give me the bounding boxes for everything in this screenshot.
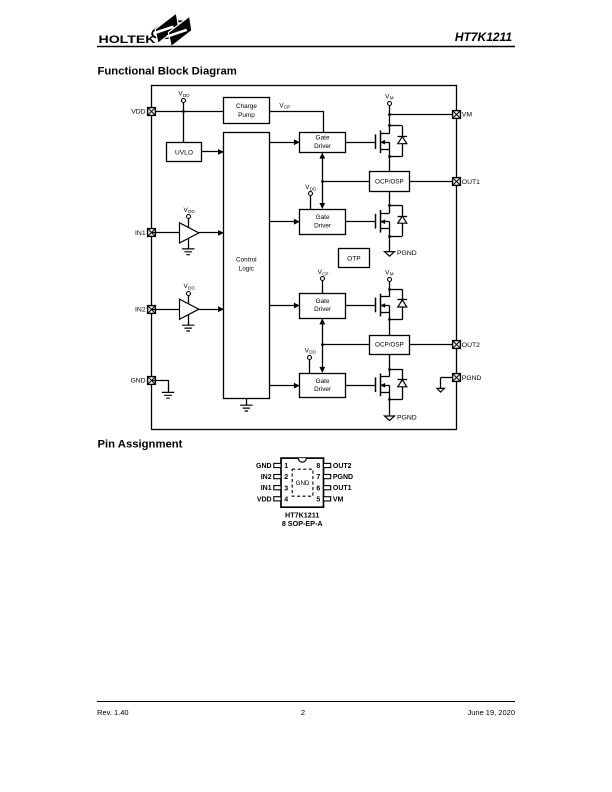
node VM junction xyxy=(388,113,391,116)
node OCP1 junction xyxy=(321,180,324,183)
wire VDD junction to UVLO xyxy=(183,102,185,142)
svg-text:IN2: IN2 xyxy=(261,474,272,481)
buffer amplifier IN2 xyxy=(180,299,199,319)
svg-text:IN2: IN2 xyxy=(135,307,146,314)
node OCP2 junction xyxy=(321,343,324,346)
ground (GND pin) xyxy=(162,392,174,398)
header rule xyxy=(97,46,515,48)
wire Q2 source to PGND xyxy=(389,236,391,252)
wire IN1 to buffer xyxy=(151,232,179,234)
svg-text:Control: Control xyxy=(236,256,257,263)
wire buffer IN1 to control logic xyxy=(199,230,224,236)
svg-text:HT7K1211: HT7K1211 xyxy=(455,30,512,44)
ground PGND (bridge 1) xyxy=(385,250,417,257)
svg-text:Driver: Driver xyxy=(314,386,332,393)
svg-text:6: 6 xyxy=(316,485,320,492)
svg-text:Pin Assignment: Pin Assignment xyxy=(98,439,183,451)
wire Q3 source to OCP/OSP 2 xyxy=(389,320,391,336)
svg-text:Logic: Logic xyxy=(239,266,255,273)
terminal OUT1 xyxy=(453,178,481,186)
terminal GND xyxy=(130,377,155,385)
svg-text:DD: DD xyxy=(310,186,317,191)
svg-text:Driver: Driver xyxy=(314,306,332,313)
footer rule xyxy=(97,701,515,703)
supply pin VCP (gate driver U6) xyxy=(318,269,329,293)
svg-text:VDD: VDD xyxy=(257,496,272,503)
wire control logic to gate driver U7 xyxy=(269,383,300,389)
wire OCP/OSP 2 to terminal OUT2 xyxy=(410,344,456,346)
wire UVLO to control logic xyxy=(202,149,224,155)
svg-text:IN1: IN1 xyxy=(261,485,272,492)
wire control logic to gate driver U5 xyxy=(269,219,300,225)
svg-text:Charge: Charge xyxy=(236,103,257,110)
svg-text:VM: VM xyxy=(462,111,473,118)
svg-text:5: 5 xyxy=(316,496,320,503)
supply pin VM (half-bridge 1) xyxy=(385,93,394,126)
terminal IN1 xyxy=(135,229,155,238)
wire PGND terminal to ground xyxy=(441,378,452,389)
buffer amplifier IN1 xyxy=(180,223,199,243)
terminal OUT2 xyxy=(453,341,481,349)
HOLTEK logo icon xyxy=(151,13,193,47)
terminal PGND xyxy=(453,374,482,382)
svg-text:GND: GND xyxy=(296,480,310,487)
pin 3 IN1 xyxy=(261,485,289,492)
gate driver U6 xyxy=(300,294,346,319)
svg-text:DD: DD xyxy=(188,209,195,214)
svg-text:June 19, 2020: June 19, 2020 xyxy=(467,708,515,717)
ground (IN1 buffer) xyxy=(182,238,195,254)
OCP/OSP block 1 xyxy=(370,172,410,192)
svg-text:Gate: Gate xyxy=(316,214,330,221)
svg-text:7: 7 xyxy=(316,474,320,481)
supply pin VDD (gate driver U7) xyxy=(305,347,317,373)
wire gate driver U6 to Q3 gate xyxy=(346,305,376,307)
transistor Q4 xyxy=(376,368,408,401)
wire gate driver U5 to Q2 gate xyxy=(346,221,376,223)
svg-text:M: M xyxy=(390,272,394,277)
svg-text:VDD: VDD xyxy=(131,108,145,115)
svg-text:GND: GND xyxy=(130,377,145,384)
svg-text:3: 3 xyxy=(284,485,288,492)
wire VM junction to terminal VM xyxy=(390,114,457,116)
svg-text:VM: VM xyxy=(333,496,344,503)
svg-text:Gate: Gate xyxy=(316,298,330,305)
svg-text:OUT1: OUT1 xyxy=(333,485,352,492)
supply pin VDD (IN1 buffer) xyxy=(183,207,195,228)
svg-text:GND: GND xyxy=(256,463,272,470)
svg-text:IN1: IN1 xyxy=(135,230,146,237)
label VDD supply xyxy=(178,91,190,98)
svg-text:8 SOP-EP-A: 8 SOP-EP-A xyxy=(282,519,323,528)
transistor Q3 xyxy=(376,288,408,321)
gate driver U5 xyxy=(300,210,346,235)
package label 8 SOP-EP-A xyxy=(282,519,323,528)
ground (PGND terminal) xyxy=(437,388,444,392)
gate driver U7 xyxy=(300,374,346,398)
pin 5 VM xyxy=(316,496,343,503)
ground (IN2 buffer) xyxy=(182,315,195,331)
wire bidirectional gate driver U6/U7 xyxy=(319,318,325,373)
svg-text:HOLTEK: HOLTEK xyxy=(99,34,157,46)
wire GND to ground xyxy=(151,380,168,392)
pin 1 GND xyxy=(256,463,288,470)
wire OCP/OSP 1 to terminal OUT1 xyxy=(410,181,456,183)
svg-text:DD: DD xyxy=(188,285,195,290)
svg-text:PGND: PGND xyxy=(397,250,417,257)
svg-text:2: 2 xyxy=(284,474,288,481)
wire gate driver U7 to Q4 gate xyxy=(346,385,376,387)
svg-text:CP: CP xyxy=(284,105,290,110)
svg-text:Pump: Pump xyxy=(238,112,255,119)
svg-text:PGND: PGND xyxy=(397,414,417,421)
terminal IN2 xyxy=(135,306,155,314)
svg-text:Gate: Gate xyxy=(316,378,330,385)
svg-text:2: 2 xyxy=(301,708,305,717)
svg-text:OCP/OSP: OCP/OSP xyxy=(375,342,404,349)
pin 6 OUT1 xyxy=(316,485,351,492)
heading: Pin Assignment xyxy=(98,439,183,451)
ground (control logic) xyxy=(240,398,253,411)
control logic U3 xyxy=(224,133,270,399)
svg-text:OUT2: OUT2 xyxy=(462,342,480,349)
charge pump U1 xyxy=(224,98,270,124)
svg-text:Rev. 1.40: Rev. 1.40 xyxy=(97,708,129,717)
wire bidirectional gate driver U4/U5 xyxy=(319,153,325,209)
diagram frame / supply rails xyxy=(152,86,457,430)
wire control logic to gate driver U4 xyxy=(269,139,300,145)
wire junction to OCP/OSP 1 xyxy=(322,181,369,183)
footer text xyxy=(97,708,515,717)
svg-text:PGND: PGND xyxy=(333,474,353,481)
pin 4 VDD xyxy=(257,496,288,503)
transistor Q1 xyxy=(376,124,408,158)
svg-text:DD: DD xyxy=(309,350,316,355)
wire Q1 source to OCP/OSP 1 xyxy=(389,157,391,172)
header part number xyxy=(455,30,512,44)
svg-text:OUT2: OUT2 xyxy=(333,463,352,470)
heading: Functional Block Diagram xyxy=(98,66,237,78)
supply pin VDD (circle) xyxy=(182,99,186,103)
wire buffer IN2 to control logic xyxy=(199,306,224,312)
HOLTEK logo text xyxy=(99,34,157,46)
svg-text:UVLO: UVLO xyxy=(175,149,193,156)
svg-text:Functional Block Diagram: Functional Block Diagram xyxy=(98,66,237,78)
svg-text:M: M xyxy=(390,96,394,101)
supply pin VDD (IN2 buffer) xyxy=(183,283,195,304)
pin 7 PGND xyxy=(316,474,353,481)
OCP/OSP block 2 xyxy=(370,336,410,355)
terminal VM xyxy=(453,111,473,119)
svg-text:Driver: Driver xyxy=(314,143,332,150)
transistor Q2 xyxy=(376,204,408,238)
wire VDD to Charge Pump xyxy=(151,111,223,113)
wire junction to OCP/OSP 2 xyxy=(322,344,369,346)
package label HT7K1211 xyxy=(285,511,319,520)
supply pin VM (half-bridge 2) xyxy=(385,269,394,289)
package body 8 SOP-EP-A xyxy=(281,458,324,507)
exposed pad GND xyxy=(292,469,313,496)
pin 2 IN2 xyxy=(261,474,289,481)
wire OCP/OSP 2 to Q4 drain xyxy=(389,354,391,369)
svg-text:OCP/OSP: OCP/OSP xyxy=(375,179,404,186)
node VDD junction xyxy=(182,110,185,113)
ground PGND (bridge 2) xyxy=(385,414,417,421)
terminal VDD xyxy=(131,108,155,116)
wire VCP: charge pump to gate driver 1 xyxy=(270,111,324,132)
wire IN2 to buffer xyxy=(151,309,179,311)
svg-text:OTP: OTP xyxy=(347,255,361,262)
wire OCP/OSP 1 to Q2 drain xyxy=(389,192,391,206)
label VCP net xyxy=(279,102,290,109)
wire Q4 source to PGND xyxy=(389,400,391,416)
supply pin VDD (gate driver U5) xyxy=(305,184,317,209)
svg-text:DD: DD xyxy=(183,93,190,98)
wire gate driver U4 to Q1 gate xyxy=(346,142,376,144)
wire control logic to gate driver U6 xyxy=(269,303,300,309)
OTP block U8 xyxy=(339,249,370,268)
UVLO block U2 xyxy=(167,143,202,162)
svg-text:Driver: Driver xyxy=(314,222,332,229)
gate driver U4 xyxy=(300,133,346,153)
pin 8 OUT2 xyxy=(316,463,351,470)
svg-text:Gate: Gate xyxy=(316,135,330,142)
svg-text:CP: CP xyxy=(322,271,328,276)
svg-text:1: 1 xyxy=(284,463,288,470)
svg-text:OUT1: OUT1 xyxy=(462,179,480,186)
svg-text:4: 4 xyxy=(284,496,288,503)
svg-text:8: 8 xyxy=(316,463,320,470)
svg-text:PGND: PGND xyxy=(462,375,482,382)
